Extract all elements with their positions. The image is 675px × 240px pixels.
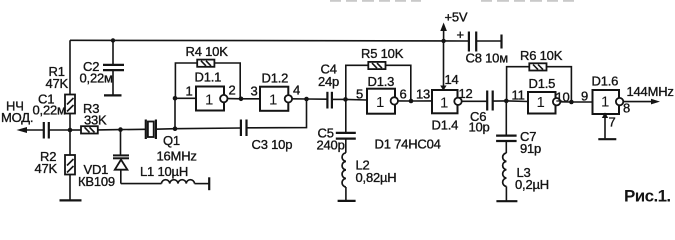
svg-text:0,82µH: 0,82µH [356,170,397,185]
svg-text:5: 5 [356,87,363,102]
svg-text:2: 2 [229,83,236,98]
crystal Q1 16MHz [121,120,197,164]
svg-text:6: 6 [400,87,407,102]
ground under L2 [338,200,356,202]
inductor L2 [342,153,396,201]
svg-text:1: 1 [440,94,448,111]
ground under pin 7 [598,138,616,140]
inverter D1.3 [346,74,412,114]
resistor R6 feedback loop [507,48,572,102]
svg-text:33K: 33K [84,113,107,128]
ground under R2 [60,199,82,201]
svg-text:144MHz: 144MHz [627,84,674,99]
svg-text:1: 1 [376,94,384,111]
capacitor C8 electrolytic [457,27,509,66]
node D1.5 output [569,100,574,105]
svg-text:13: 13 [416,87,430,102]
svg-text:240p: 240p [317,138,345,153]
node C7 tap / D1.5 input [504,99,509,104]
svg-text:7: 7 [609,115,616,130]
capacitor C7 [496,101,541,156]
svg-text:14: 14 [445,72,459,87]
node C1 R1 R2 R3 [68,128,73,133]
svg-text:10: 10 [556,90,570,105]
capacitor C1 [33,92,71,139]
svg-text:0,22м: 0,22м [33,103,67,118]
inverter D1.1 [175,70,241,111]
svg-text:11: 11 [512,88,525,103]
svg-text:91p: 91p [520,141,541,156]
svg-text:R5 10K: R5 10K [361,46,404,61]
svg-text:24p: 24p [318,74,339,89]
svg-text:9: 9 [581,89,588,104]
wire node up to gate input [174,98,176,128]
ground under L3 [496,200,517,202]
svg-text:1: 1 [537,94,545,111]
ground under C2 [104,94,122,96]
resistor R2 [35,130,76,200]
svg-text:10p: 10p [469,120,490,135]
varicap VD1 КВ109 [78,130,129,189]
svg-text:L1 10µH: L1 10µH [140,164,188,179]
svg-text:Рис.1.: Рис.1. [624,187,671,206]
svg-text:МОД.: МОД. [1,110,33,125]
svg-text:D1.3: D1.3 [368,74,395,89]
svg-text:3: 3 [251,84,258,99]
capacitor C2 [80,40,125,94]
capacitor C4 [307,62,346,109]
svg-text:R4 10K: R4 10K [186,44,229,59]
wire D1.1 out to D1.2 in [241,98,260,100]
wire D1.3 out to D1.4 in [411,100,432,102]
НЧ МОД input arrow [1,99,44,134]
capacitor C5 [317,99,356,152]
pin 14 power lead [440,41,458,91]
+5V supply arrow [440,10,468,41]
capacitor C6 [469,91,507,135]
node D1.3 input [343,97,348,102]
inverter D1.2 [251,71,307,111]
wire left rail down to R1 [69,40,71,94]
svg-text:1: 1 [269,92,277,109]
svg-text:D1.2: D1.2 [262,71,289,86]
svg-text:D1.6: D1.6 [592,74,619,89]
svg-text:КВ109: КВ109 [78,174,115,189]
node +5V rail junction [441,39,445,43]
output arrow 144MHz [623,84,674,104]
svg-text:1: 1 [601,94,609,111]
node VD1 tap [118,127,123,132]
svg-text:R6 10K: R6 10K [520,48,563,63]
inverter D1.5 [506,76,571,114]
svg-text:C3 10p: C3 10p [252,137,293,152]
wire D1.5 out to D1.6 in [571,101,592,103]
svg-text:D1.4: D1.4 [432,118,459,133]
pin 7 ground lead [602,112,616,138]
resistor R3 [70,101,121,134]
svg-text:C8 10м: C8 10м [466,51,509,66]
svg-text:16MHz: 16MHz [157,149,197,164]
capacitor C3 feedback run [175,99,307,152]
svg-text:D1.1: D1.1 [195,70,222,85]
svg-text:+5V: +5V [445,10,468,25]
resistor R1 [46,64,76,130]
inductor L1 [121,164,209,190]
svg-text:0,2µH: 0,2µH [515,177,549,192]
inductor L3 [503,153,549,201]
inverter D1.6 [592,74,631,116]
svg-text:1: 1 [186,84,193,99]
svg-text:4: 4 [293,83,300,98]
svg-text:+: + [457,27,464,42]
node C2 to rail [111,38,115,42]
svg-text:1: 1 [205,92,213,109]
resistor R5 feedback loop [346,46,411,101]
scan artifact dashes top row [330,0,574,2]
node crystal / D1.1 input branch [173,126,178,131]
node D1.1 input [173,96,178,101]
svg-text:47K: 47K [35,161,58,176]
node D1.3 output [409,99,414,104]
svg-text:D1.5: D1.5 [529,76,556,91]
resistor R4 feedback loop [175,44,240,99]
svg-text:47K: 47K [46,76,69,91]
svg-text:D1 74HC04: D1 74HC04 [375,137,441,152]
wire +5V top rail [70,39,469,42]
svg-text:Q1: Q1 [163,133,180,148]
svg-text:12: 12 [459,86,473,101]
svg-text:8: 8 [623,101,630,116]
node D1.1 output [239,97,244,102]
svg-text:0,22м: 0,22м [80,71,114,86]
node D1.2 output [304,97,309,102]
inverter D1.4 [432,86,488,133]
